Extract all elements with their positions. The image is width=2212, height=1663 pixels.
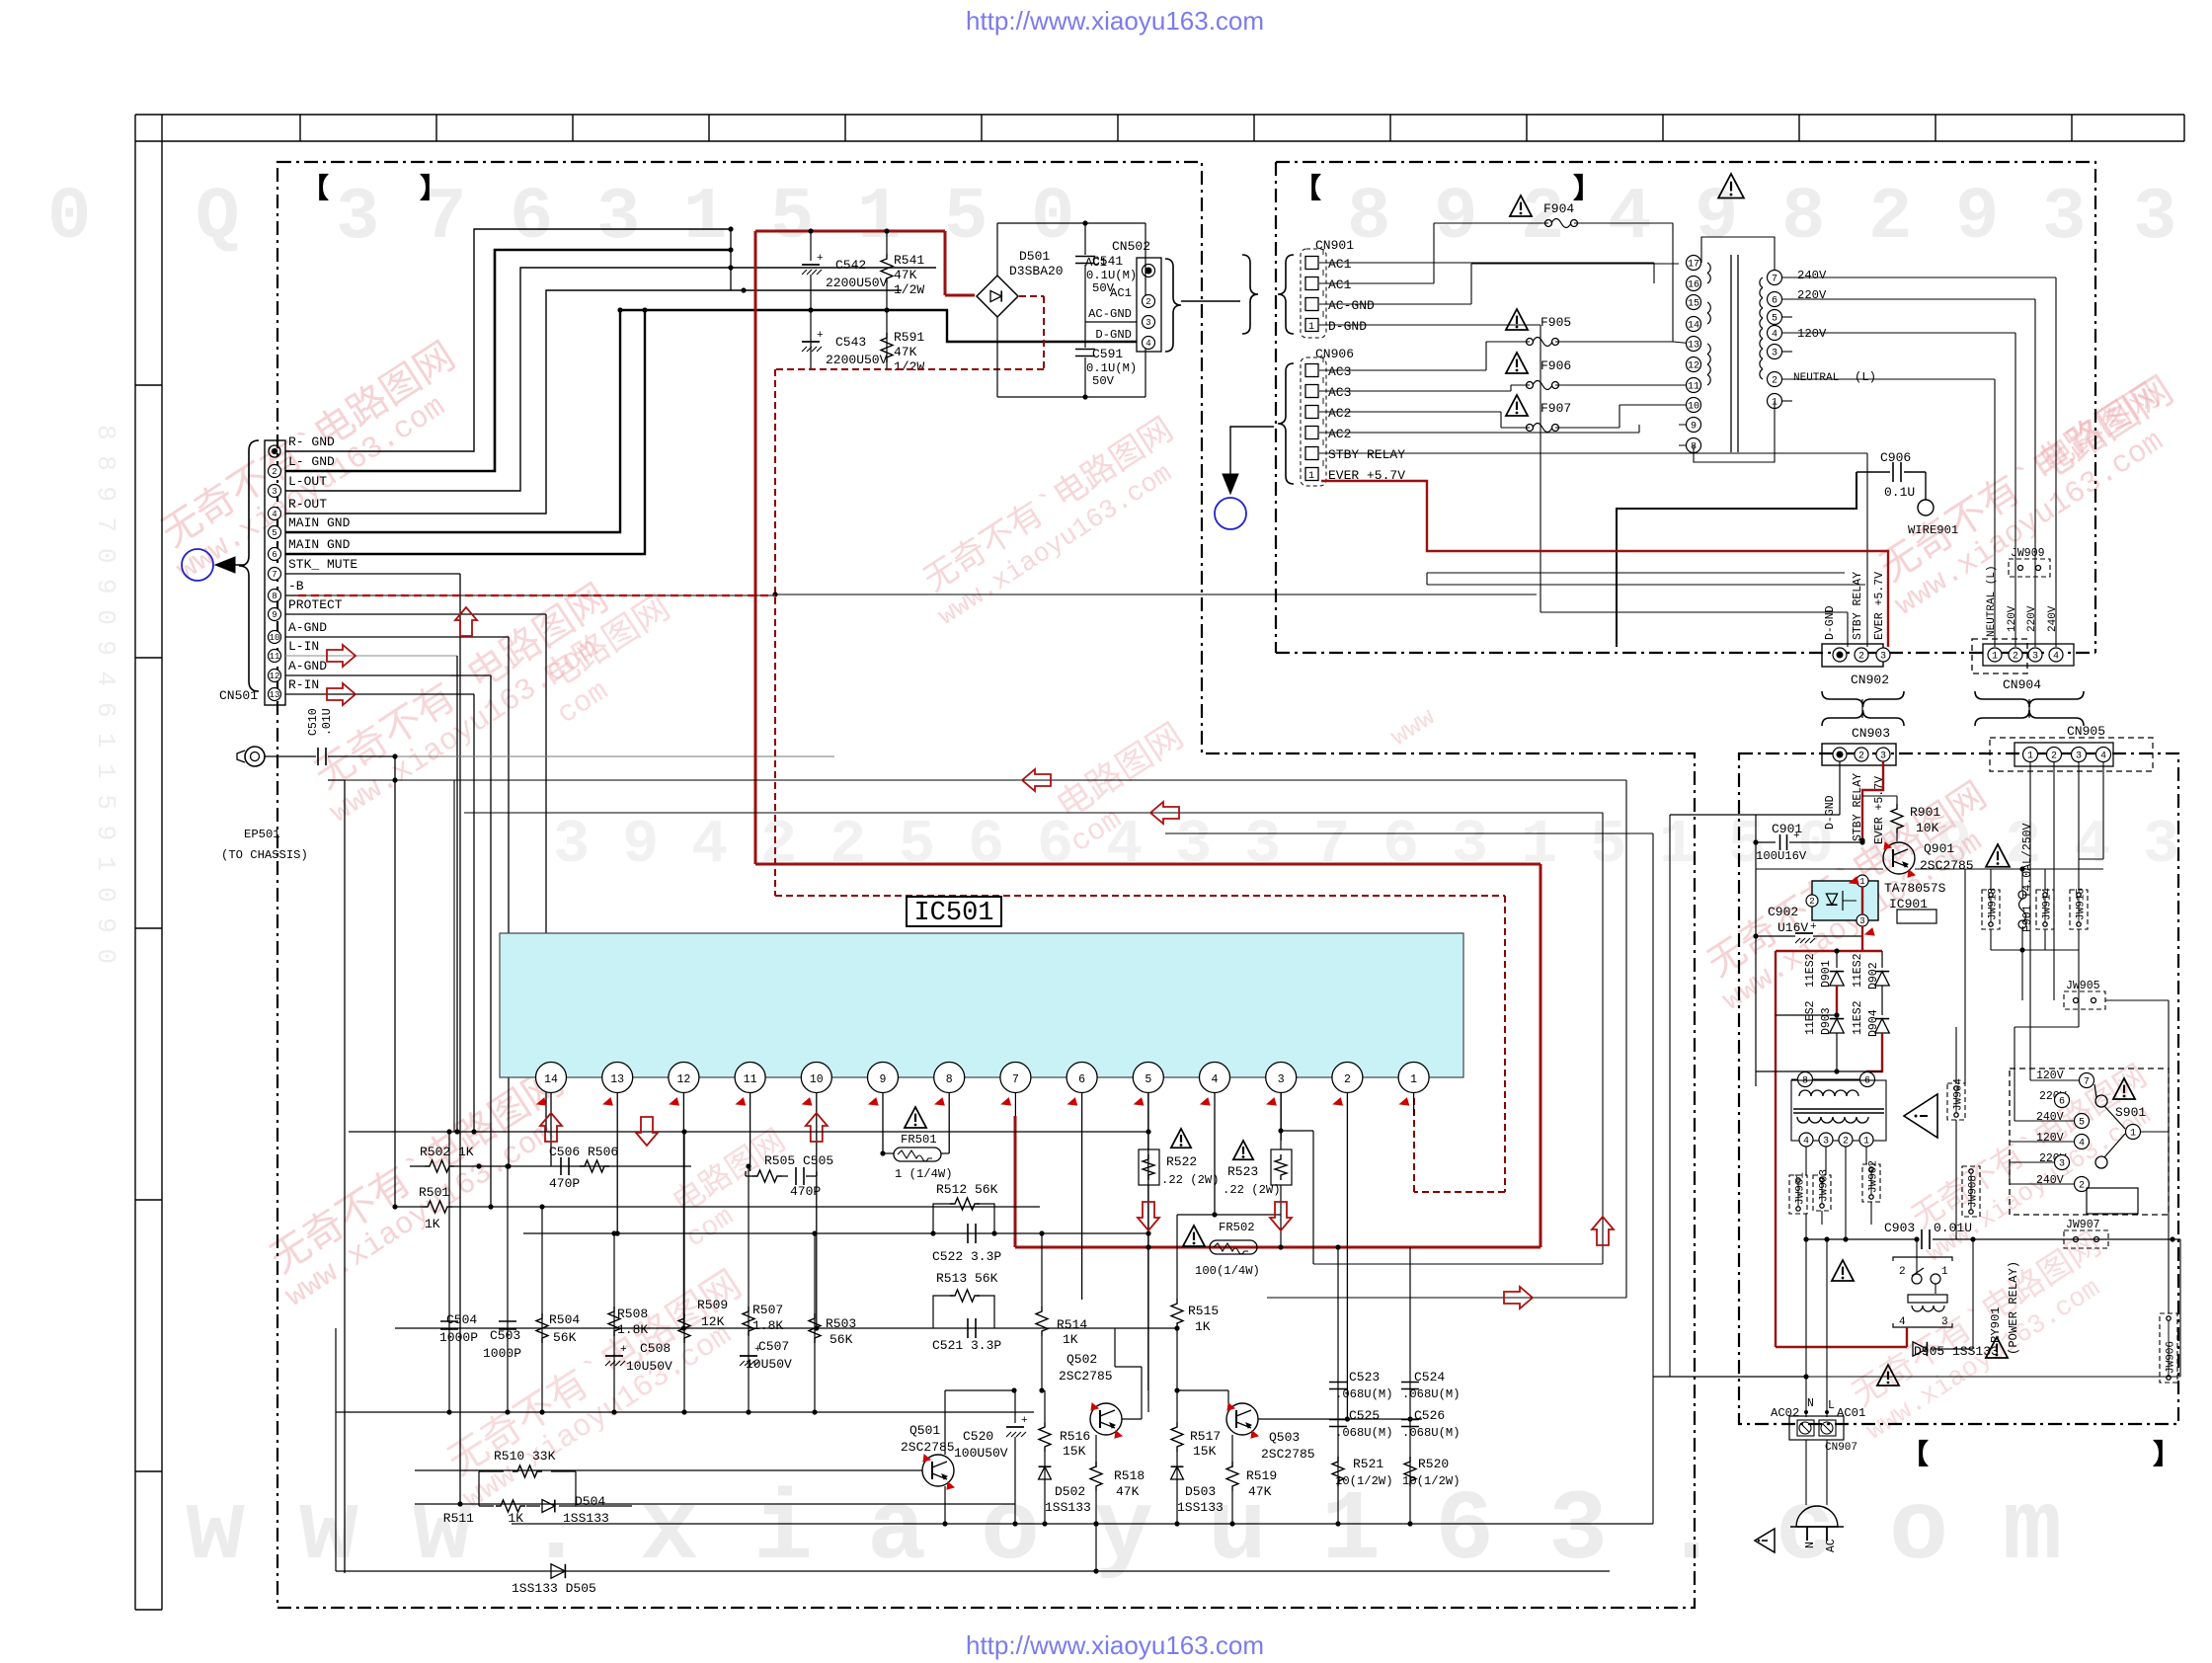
svg-text:.068U(M): .068U(M) <box>1335 1426 1393 1440</box>
svg-text:50V: 50V <box>1092 374 1115 388</box>
svg-text:1: 1 <box>2130 1129 2136 1140</box>
svg-text:STBY RELAY: STBY RELAY <box>1852 572 1864 640</box>
svg-text:6: 6 <box>272 550 276 560</box>
svg-text:(POWER RELAY): (POWER RELAY) <box>2007 1261 2020 1355</box>
svg-text:F904: F904 <box>1543 201 1574 216</box>
svg-text:L: L <box>1828 1399 1835 1412</box>
svg-text:240V: 240V <box>2036 1174 2064 1187</box>
svg-text:TA78057S: TA78057S <box>1884 881 1946 896</box>
svg-text:2SC2785: 2SC2785 <box>1261 1447 1315 1462</box>
svg-text:JW908: JW908 <box>1968 1175 1980 1208</box>
svg-text:5: 5 <box>1590 810 1626 880</box>
svg-text:C520: C520 <box>963 1429 993 1444</box>
svg-text:9: 9 <box>622 810 659 880</box>
svg-text:0.01U: 0.01U <box>1934 1221 1972 1235</box>
svg-text:JW902: JW902 <box>1868 1160 1880 1193</box>
svg-text:R502 1K: R502 1K <box>420 1145 474 1159</box>
svg-text:9: 9 <box>880 1073 887 1086</box>
svg-text:C510: C510 <box>307 708 320 736</box>
svg-text:11: 11 <box>270 652 280 662</box>
svg-text:AC2: AC2 <box>1328 427 1351 441</box>
svg-text:12: 12 <box>1688 361 1699 372</box>
svg-text:2: 2 <box>1868 177 1912 260</box>
svg-text:R501: R501 <box>419 1185 449 1200</box>
svg-text:2: 2 <box>829 810 866 880</box>
svg-text:AC2: AC2 <box>1328 406 1351 421</box>
svg-text:15K: 15K <box>1063 1444 1086 1459</box>
svg-text:6: 6 <box>2059 1097 2065 1108</box>
svg-text:C525: C525 <box>1349 1408 1380 1423</box>
svg-text:1: 1 <box>1941 1266 1948 1278</box>
svg-text:1: 1 <box>857 177 901 260</box>
svg-text:14: 14 <box>544 1073 558 1086</box>
svg-text:4: 4 <box>691 810 728 880</box>
svg-text:Q503: Q503 <box>1269 1430 1300 1445</box>
svg-text:AC3: AC3 <box>1328 385 1351 400</box>
svg-text:C902: C902 <box>1768 905 1798 919</box>
svg-text:R519: R519 <box>1246 1468 1277 1483</box>
svg-text:C522 3.3P: C522 3.3P <box>932 1249 1001 1264</box>
svg-text:F901 T4.0AL/250V: F901 T4.0AL/250V <box>2021 823 2034 932</box>
svg-text:56K: 56K <box>553 1330 577 1345</box>
svg-text:1SS133 D505: 1SS133 D505 <box>512 1581 596 1596</box>
svg-text:100(1/4W): 100(1/4W) <box>1195 1264 1260 1278</box>
svg-text:1000P: 1000P <box>439 1330 478 1345</box>
svg-text:http://www.xiaoyu163.com: http://www.xiaoyu163.com <box>966 1630 1264 1660</box>
svg-text:100U16V: 100U16V <box>1756 849 1807 863</box>
svg-text:JW904: JW904 <box>1953 1078 1965 1111</box>
svg-text:120V: 120V <box>2036 1132 2064 1145</box>
svg-text:JW905: JW905 <box>2066 980 2100 992</box>
svg-text:1: 1 <box>1659 810 1696 880</box>
svg-text:D-GND: D-GND <box>1824 605 1837 640</box>
svg-text:L-OUT: L-OUT <box>288 474 327 489</box>
svg-text:7: 7 <box>1772 275 1777 285</box>
svg-text:8: 8 <box>946 1073 953 1086</box>
svg-text:6: 6 <box>1382 810 1419 880</box>
svg-text:CN901: CN901 <box>1315 238 1354 253</box>
svg-text:CN502: CN502 <box>1112 239 1150 254</box>
svg-text:Q502: Q502 <box>1066 1352 1097 1367</box>
svg-text:JW909: JW909 <box>2011 547 2045 560</box>
svg-text:3: 3 <box>336 177 379 260</box>
svg-text:R523: R523 <box>1227 1164 1258 1179</box>
svg-text:14: 14 <box>1688 321 1699 332</box>
svg-text:2: 2 <box>272 467 276 477</box>
svg-text:5: 5 <box>944 177 987 260</box>
svg-text:(TO CHASSIS): (TO CHASSIS) <box>221 848 308 862</box>
svg-text:8: 8 <box>272 592 276 601</box>
svg-text:10: 10 <box>270 633 280 643</box>
svg-text:JW901: JW901 <box>1795 1172 1807 1205</box>
svg-text:C903: C903 <box>1884 1221 1915 1235</box>
svg-text:1: 1 <box>1308 471 1314 482</box>
svg-text:17: 17 <box>1688 260 1699 271</box>
svg-text:D504: D504 <box>575 1494 605 1509</box>
svg-text:11: 11 <box>1688 382 1699 393</box>
svg-text:c: c <box>1776 1476 1835 1588</box>
svg-text:470P: 470P <box>790 1184 821 1199</box>
svg-text:R510 33K: R510 33K <box>494 1449 556 1464</box>
svg-text:2SC2785: 2SC2785 <box>1059 1369 1113 1384</box>
svg-text:2200U50V: 2200U50V <box>826 353 888 367</box>
svg-text:R513 56K: R513 56K <box>936 1271 998 1286</box>
svg-text:.01U: .01U <box>321 708 334 736</box>
svg-text:o: o <box>1889 1476 1948 1588</box>
svg-text:F905: F905 <box>1540 315 1571 330</box>
svg-text:D-GND: D-GND <box>1095 328 1132 342</box>
svg-text:4: 4 <box>1212 1073 1219 1086</box>
svg-text:4: 4 <box>1803 1137 1809 1148</box>
svg-text:3: 3 <box>1880 652 1886 663</box>
svg-text:C542: C542 <box>835 258 866 273</box>
svg-text:R517: R517 <box>1190 1429 1221 1444</box>
svg-text:10(1/2W): 10(1/2W) <box>1335 1474 1393 1488</box>
svg-text:3: 3 <box>1175 810 1212 880</box>
svg-text:1K: 1K <box>1195 1319 1211 1334</box>
svg-text:1000P: 1000P <box>483 1346 521 1361</box>
svg-text:EP501: EP501 <box>244 828 280 841</box>
svg-text:5: 5 <box>1145 1073 1151 1086</box>
svg-text:2: 2 <box>2013 652 2018 663</box>
svg-text:+: + <box>754 1344 761 1356</box>
svg-text:3: 3 <box>2059 1159 2065 1170</box>
svg-text:1: 1 <box>683 177 727 260</box>
svg-text:D501: D501 <box>1019 249 1050 264</box>
svg-text:C523: C523 <box>1349 1370 1380 1385</box>
svg-text:15: 15 <box>1688 299 1699 310</box>
svg-text:C521 3.3P: C521 3.3P <box>932 1338 1001 1353</box>
svg-text:Q501: Q501 <box>909 1423 940 1438</box>
svg-text:AC-GND: AC-GND <box>1088 307 1132 321</box>
svg-text:R508: R508 <box>617 1307 648 1321</box>
svg-text:L- GND: L- GND <box>288 454 335 469</box>
svg-text:AC01: AC01 <box>1837 1406 1865 1420</box>
svg-text:8 8 9 7 0 9 0 9 4 6 1 1 5 9: 8 8 9 7 0 9 0 9 4 6 1 1 5 9 1 0 9 0 <box>91 425 120 964</box>
svg-text:.22 (2W): .22 (2W) <box>1161 1173 1220 1187</box>
svg-text:10U50V: 10U50V <box>746 1357 792 1372</box>
svg-text:R514: R514 <box>1057 1317 1087 1332</box>
svg-text:PROTECT: PROTECT <box>288 597 343 612</box>
svg-text:1: 1 <box>1410 1073 1417 1086</box>
svg-text:3: 3 <box>2042 177 2086 260</box>
svg-text:R512 56K: R512 56K <box>936 1182 998 1197</box>
svg-text:7: 7 <box>272 570 276 580</box>
svg-text:2: 2 <box>2079 1181 2085 1192</box>
svg-text:3: 3 <box>1145 318 1150 328</box>
svg-text:CN904: CN904 <box>2003 677 2041 692</box>
svg-text:5: 5 <box>1772 314 1777 325</box>
svg-text:2: 2 <box>1344 1073 1351 1086</box>
svg-text:JW915: JW915 <box>2076 888 2088 920</box>
svg-text:CN903: CN903 <box>1852 726 1890 741</box>
svg-text:4: 4 <box>1608 177 1651 260</box>
svg-text:1K: 1K <box>1063 1332 1078 1347</box>
svg-text:13: 13 <box>270 690 280 700</box>
svg-text:D503: D503 <box>1185 1484 1216 1499</box>
svg-text:11ES2: 11ES2 <box>1852 1000 1864 1035</box>
svg-text:D3SBA20: D3SBA20 <box>1009 264 1064 278</box>
svg-text:3: 3 <box>1452 810 1488 880</box>
svg-text:R541: R541 <box>894 253 924 268</box>
svg-text:C503: C503 <box>490 1328 520 1343</box>
svg-text:MAIN GND: MAIN GND <box>288 515 351 530</box>
svg-text:1: 1 <box>1992 652 1998 663</box>
svg-text:+: + <box>1810 921 1817 933</box>
svg-text:R521: R521 <box>1353 1457 1383 1471</box>
svg-text:w: w <box>186 1476 245 1588</box>
svg-text:2: 2 <box>2051 752 2057 762</box>
svg-text:2: 2 <box>1899 1266 1906 1278</box>
svg-text:JW907: JW907 <box>2066 1219 2100 1231</box>
svg-text:Q: Q <box>196 177 239 260</box>
svg-text:10U50V: 10U50V <box>626 1359 672 1374</box>
svg-text:L-IN: L-IN <box>288 639 319 654</box>
svg-text:4: 4 <box>2100 752 2106 762</box>
svg-text:JW906: JW906 <box>2166 1341 2177 1374</box>
svg-text:R516: R516 <box>1060 1429 1090 1444</box>
svg-text:CN906: CN906 <box>1315 347 1354 361</box>
svg-text:9: 9 <box>1691 422 1697 433</box>
svg-text:2: 2 <box>1858 752 1864 762</box>
svg-text:AC02: AC02 <box>1771 1406 1799 1420</box>
svg-text:C507: C507 <box>758 1339 789 1354</box>
svg-text:56K: 56K <box>829 1332 853 1347</box>
svg-text:1/2W: 1/2W <box>894 282 924 297</box>
svg-text:2: 2 <box>1843 1137 1849 1148</box>
svg-text:【: 【 <box>301 173 329 206</box>
svg-text:D-GND: D-GND <box>1328 319 1367 334</box>
svg-text:】: 】 <box>1573 173 1601 206</box>
svg-text:6: 6 <box>1772 296 1777 307</box>
svg-text:STBY RELAY: STBY RELAY <box>1328 447 1405 462</box>
svg-text:12K: 12K <box>701 1314 725 1329</box>
svg-text:15K: 15K <box>1193 1444 1217 1459</box>
svg-text:120V: 120V <box>2007 605 2018 632</box>
svg-text:R505 C505: R505 C505 <box>764 1153 833 1168</box>
svg-text:8: 8 <box>1802 1076 1808 1087</box>
svg-text:【: 【 <box>1294 173 1321 206</box>
svg-text:AC1: AC1 <box>1328 257 1352 272</box>
svg-text:240V: 240V <box>1797 269 1827 282</box>
svg-text:7: 7 <box>2084 1077 2090 1088</box>
svg-text:0.1U(M): 0.1U(M) <box>1086 269 1137 282</box>
svg-text:4: 4 <box>1899 1316 1906 1328</box>
svg-text:5: 5 <box>899 810 935 880</box>
svg-text:4: 4 <box>272 510 276 519</box>
svg-text:5: 5 <box>272 528 276 538</box>
svg-text:C543: C543 <box>835 335 866 350</box>
svg-text:3: 3 <box>1941 1316 1948 1328</box>
svg-text:3: 3 <box>2143 810 2179 880</box>
svg-text:A-GND: A-GND <box>288 620 327 635</box>
svg-text:100U50V: 100U50V <box>954 1446 1008 1461</box>
svg-text:C506 R506: C506 R506 <box>549 1145 618 1159</box>
svg-text:R901: R901 <box>1910 805 1940 820</box>
svg-text:A-GND: A-GND <box>288 659 327 673</box>
svg-text:3: 3 <box>272 487 276 497</box>
svg-text:m: m <box>2003 1476 2062 1588</box>
svg-text:+: + <box>1021 1415 1028 1427</box>
svg-text:Q901: Q901 <box>1924 841 1954 856</box>
svg-text:AC3: AC3 <box>1328 364 1351 379</box>
svg-text:13: 13 <box>1688 341 1699 352</box>
svg-text:R511: R511 <box>443 1511 474 1526</box>
svg-text:+: + <box>1793 831 1800 842</box>
svg-text:7: 7 <box>1012 1073 1019 1086</box>
svg-text:】: 】 <box>420 173 447 206</box>
svg-text:12: 12 <box>270 672 280 681</box>
svg-text:R591: R591 <box>894 330 924 345</box>
svg-text:47K: 47K <box>894 345 917 359</box>
svg-text:11ES2: 11ES2 <box>1804 1000 1817 1035</box>
svg-text:AC: AC <box>1825 1539 1838 1552</box>
svg-text:CN902: CN902 <box>1851 673 1889 687</box>
svg-text:4: 4 <box>1772 330 1777 341</box>
svg-text:FR502: FR502 <box>1219 1221 1255 1234</box>
svg-text:47K: 47K <box>1248 1484 1272 1499</box>
svg-text:47K: 47K <box>894 268 917 282</box>
svg-text:N: N <box>1807 1397 1814 1410</box>
svg-text:6: 6 <box>968 810 1004 880</box>
svg-text:0.1U(M): 0.1U(M) <box>1086 361 1137 375</box>
svg-text:.068U(M): .068U(M) <box>1402 1426 1461 1440</box>
svg-text:R522: R522 <box>1166 1154 1197 1169</box>
svg-text:5: 5 <box>2079 1118 2085 1129</box>
svg-text:CN907: CN907 <box>1825 1442 1857 1454</box>
svg-text:D905 1SS133: D905 1SS133 <box>1914 1344 1999 1359</box>
svg-text:MAIN GND: MAIN GND <box>288 537 351 552</box>
svg-text:+: + <box>817 253 824 265</box>
svg-text:11ES2: 11ES2 <box>1804 953 1817 988</box>
svg-text:3: 3 <box>2133 177 2176 260</box>
svg-text:AC-GND: AC-GND <box>1328 298 1375 313</box>
svg-text:F906: F906 <box>1540 358 1571 373</box>
svg-text:S901: S901 <box>2115 1105 2146 1120</box>
svg-text:STK_ MUTE: STK_ MUTE <box>288 557 357 572</box>
svg-text:3: 3 <box>1880 752 1886 762</box>
svg-text:1SS133: 1SS133 <box>1177 1500 1224 1515</box>
svg-text:CN501: CN501 <box>219 688 258 703</box>
svg-text:D-GND: D-GND <box>1824 795 1837 830</box>
svg-text:C504: C504 <box>446 1312 477 1327</box>
svg-text:R- GND: R- GND <box>288 435 335 449</box>
svg-text:AC1: AC1 <box>1085 256 1107 270</box>
svg-text:R-IN: R-IN <box>288 677 319 692</box>
svg-text:+: + <box>620 1344 627 1356</box>
svg-text:1SS133: 1SS133 <box>1045 1500 1091 1515</box>
svg-text:0.1U: 0.1U <box>1884 485 1915 500</box>
svg-text:0: 0 <box>47 177 91 260</box>
svg-text:-B: -B <box>288 579 304 594</box>
svg-text:10K: 10K <box>1916 821 1939 835</box>
svg-text:1: 1 <box>1859 877 1864 887</box>
svg-text:1: 1 <box>1863 1137 1869 1148</box>
svg-text:16: 16 <box>1688 280 1699 291</box>
svg-text:NEUTRAL (L): NEUTRAL (L) <box>1986 565 1998 637</box>
svg-text:3: 3 <box>1823 1137 1829 1148</box>
svg-text:FR501: FR501 <box>901 1133 937 1147</box>
svg-text:C906: C906 <box>1880 450 1911 465</box>
svg-text:10: 10 <box>810 1073 824 1086</box>
svg-text:IC501: IC501 <box>913 899 993 928</box>
svg-text:2SC2785: 2SC2785 <box>901 1440 955 1455</box>
svg-text:R509: R509 <box>697 1298 728 1312</box>
svg-text:240V: 240V <box>2036 1111 2064 1124</box>
svg-text:9: 9 <box>1955 177 1999 260</box>
svg-text:JW903: JW903 <box>1819 1169 1831 1202</box>
svg-text:3: 3 <box>1278 1073 1285 1086</box>
svg-text:AC1: AC1 <box>1110 286 1132 300</box>
svg-text:R504: R504 <box>549 1312 580 1327</box>
svg-text:AC1: AC1 <box>1328 277 1352 292</box>
svg-text:4: 4 <box>1145 339 1150 349</box>
svg-text:13: 13 <box>610 1073 624 1086</box>
svg-text:.: . <box>1662 1476 1721 1588</box>
svg-text:2: 2 <box>760 810 797 880</box>
svg-text:1: 1 <box>2027 752 2033 762</box>
svg-text:120V: 120V <box>1797 327 1827 341</box>
svg-text:http://www.xiaoyu163.com: http://www.xiaoyu163.com <box>966 6 1264 36</box>
svg-text:470P: 470P <box>549 1176 580 1191</box>
svg-text:+: + <box>817 330 824 342</box>
svg-text:CN905: CN905 <box>2067 724 2105 739</box>
svg-text:R507: R507 <box>752 1303 783 1317</box>
svg-text:1 (1/4W): 1 (1/4W) <box>895 1167 953 1181</box>
svg-text:220V: 220V <box>1797 288 1827 302</box>
svg-text:1: 1 <box>1308 322 1314 333</box>
svg-text:F907: F907 <box>1540 401 1571 416</box>
svg-text:2200U50V: 2200U50V <box>826 276 888 290</box>
svg-text:6: 6 <box>510 177 553 260</box>
svg-text:C508: C508 <box>640 1341 671 1356</box>
svg-text:240V: 240V <box>2047 605 2059 632</box>
svg-text:C591: C591 <box>1092 347 1123 361</box>
svg-text:7: 7 <box>1313 810 1350 880</box>
svg-text:2: 2 <box>1521 177 1564 260</box>
svg-text:3: 3 <box>2032 652 2038 663</box>
svg-text:R515: R515 <box>1188 1304 1219 1318</box>
svg-text:R518: R518 <box>1114 1468 1145 1483</box>
svg-text:9: 9 <box>272 610 276 620</box>
svg-text:2: 2 <box>1145 297 1150 307</box>
svg-text:WIRE901: WIRE901 <box>1908 523 1958 537</box>
svg-text:3: 3 <box>1772 349 1777 359</box>
svg-text:R503: R503 <box>826 1316 856 1331</box>
svg-text:4: 4 <box>2079 1139 2085 1149</box>
svg-text:11ES2: 11ES2 <box>1852 953 1864 988</box>
svg-text:12: 12 <box>676 1073 690 1086</box>
svg-text:47K: 47K <box>1116 1484 1140 1499</box>
svg-text:2: 2 <box>1858 652 1864 663</box>
svg-text:2: 2 <box>1772 376 1777 387</box>
svg-text:6: 6 <box>1078 1073 1085 1086</box>
svg-text:(L): (L) <box>1855 370 1876 384</box>
svg-text:R520: R520 <box>1418 1457 1449 1471</box>
svg-text:1/2W: 1/2W <box>894 359 924 374</box>
svg-text:JW913: JW913 <box>1988 888 2000 920</box>
svg-text:D502: D502 <box>1055 1484 1085 1499</box>
svg-text:1.8K: 1.8K <box>617 1322 648 1337</box>
svg-text:0: 0 <box>1031 177 1074 260</box>
svg-text:】: 】 <box>2153 1439 2180 1472</box>
svg-text:3: 3 <box>553 810 590 880</box>
svg-text:3: 3 <box>596 177 640 260</box>
svg-text:10: 10 <box>1688 402 1699 413</box>
svg-text:9: 9 <box>1434 177 1477 260</box>
svg-text:4: 4 <box>2053 652 2059 663</box>
svg-text:【: 【 <box>1901 1439 1929 1472</box>
